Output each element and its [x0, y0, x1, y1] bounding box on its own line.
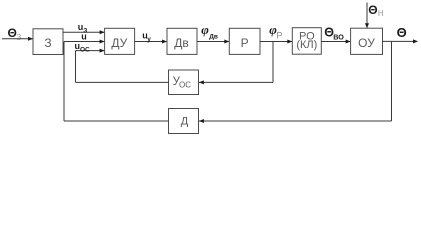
wire theta_VO from RO to OU — [321, 41, 350, 43]
svg-text:φ: φ — [201, 22, 209, 37]
wire horizontal into U_OC — [199, 81, 273, 83]
wire phi_Dv from Dv to R — [197, 41, 229, 43]
label phi_R — [269, 22, 282, 41]
wire u_OC (from U_OC feedback) into DU — [76, 50, 105, 52]
wire u (from D feedback) into DU — [64, 41, 104, 43]
block OU (controlled object) — [351, 28, 383, 54]
wire tap from phi_R line down to U_OC (vertical) — [272, 42, 274, 83]
block Z (setter) — [33, 29, 63, 55]
label theta_VO — [324, 26, 344, 42]
wire vertical up to u_OC row — [75, 51, 77, 83]
svg-text:Дв: Дв — [209, 34, 218, 41]
wire from D left going left — [64, 120, 169, 122]
arrowhead into U_OC right side — [199, 80, 204, 84]
svg-text:ОС: ОС — [80, 46, 90, 53]
svg-text:ВО: ВО — [333, 33, 344, 42]
wire theta_N disturbance (vertical into OU top) — [366, 3, 368, 28]
arrowhead into R — [224, 40, 229, 44]
wire from U_OC left going left — [76, 81, 169, 83]
svg-text:u: u — [81, 32, 87, 42]
wire u_U from DU to Dv — [135, 41, 167, 43]
wire u_Z from Z to DU — [63, 31, 104, 33]
block U_OC (feedback unit) — [169, 70, 199, 95]
svg-text:Р: Р — [241, 36, 249, 50]
svg-text:З: З — [16, 32, 21, 42]
wire theta_Z input — [2, 38, 33, 40]
arrowhead u_Z into DU — [100, 30, 105, 34]
arrowhead into Dv — [162, 40, 167, 44]
svg-text:ДУ: ДУ — [111, 36, 127, 50]
wire feedback bottom horizontal to D — [199, 120, 392, 122]
svg-text:Дв: Дв — [174, 36, 189, 50]
wire feedback tap down from output (vertical) — [391, 41, 393, 121]
label u_OC — [75, 41, 91, 53]
svg-text:Θ: Θ — [368, 3, 377, 17]
svg-text:ОУ: ОУ — [358, 36, 375, 50]
block D (sensor) — [169, 109, 199, 134]
svg-text:Θ: Θ — [397, 25, 407, 40]
wire phi_R from R to RO — [260, 41, 292, 43]
svg-text:Р: Р — [276, 31, 282, 41]
arrowhead into D right side — [199, 119, 204, 123]
block Dv (motor) — [167, 28, 197, 54]
wire theta output — [383, 40, 418, 42]
svg-text:ОС: ОС — [179, 80, 191, 89]
wire vertical up to u row — [63, 42, 65, 122]
svg-text:Н: Н — [378, 9, 384, 18]
arrowhead into RO — [287, 40, 292, 44]
arrowhead u into DU — [100, 40, 105, 44]
arrowhead output — [413, 39, 418, 43]
arrowhead u_OC into DU — [100, 49, 105, 53]
svg-text:у: у — [147, 36, 151, 43]
label theta_N — [368, 3, 384, 18]
arrowhead into OU — [346, 40, 351, 44]
block R (reducer) — [229, 28, 260, 54]
label theta_Z input — [8, 26, 22, 42]
block RO (KL) regulating organ — [292, 28, 321, 55]
svg-text:(КЛ): (КЛ) — [296, 39, 317, 51]
block DU (comparison amplifier) — [105, 28, 135, 54]
label phi_Dv — [201, 22, 218, 41]
label u_Z — [78, 22, 88, 35]
label u_U — [142, 30, 151, 43]
arrowhead theta_N into OU — [365, 23, 369, 28]
svg-text:Д: Д — [181, 116, 189, 128]
arrowhead into block Z — [28, 37, 33, 41]
svg-text:З: З — [44, 36, 51, 50]
